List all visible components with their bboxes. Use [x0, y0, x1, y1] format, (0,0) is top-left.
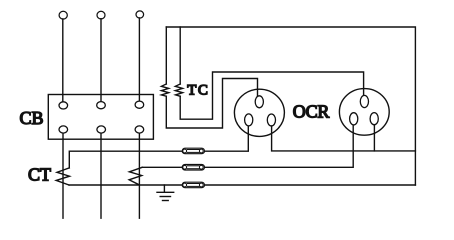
- wire phase A input: [62, 19, 64, 102]
- svg-text:CT: CT: [28, 165, 51, 185]
- terminal C: [136, 11, 144, 18]
- trip coil TC1: [161, 84, 168, 96]
- ground: [157, 185, 174, 201]
- wire control bus: top rail and right rail: [166, 27, 415, 185]
- CB contact C2: [135, 126, 144, 133]
- wire TC1 top lead: [165, 27, 167, 84]
- OCR2 coil pin left: [350, 113, 358, 125]
- CB contact A1: [59, 102, 68, 109]
- wire CT common return line 3: [69, 184, 415, 186]
- terminal B: [97, 11, 105, 19]
- wire TC2 to OCR2 trip pin: [180, 72, 363, 119]
- wire phase A output: [62, 133, 64, 218]
- OCR1 trip contact pin: [255, 96, 263, 108]
- wire phase B output: [100, 133, 102, 218]
- wire TC1 to OCR1 trip pin: [166, 79, 257, 129]
- wire phase C output: [138, 133, 140, 218]
- circuit breaker CB box: [48, 95, 153, 140]
- svg-text:OCR: OCR: [293, 102, 330, 122]
- wire CT2 secondary line 2 to OCR2 left pin: [142, 125, 353, 167]
- relay OCR1 case: [234, 89, 284, 136]
- OCR2 trip contact pin: [360, 95, 368, 107]
- CB contact C1: [135, 101, 144, 108]
- OCR2 coil pin right: [370, 113, 378, 125]
- wire OCR2 right pin junction: [373, 125, 375, 151]
- current transformer CT1: [56, 168, 69, 185]
- wire phase C input: [138, 18, 140, 101]
- OCR1 coil pin right: [267, 114, 275, 126]
- test terminal TT3: [182, 182, 204, 188]
- CB contact B2: [97, 126, 106, 133]
- svg-text:TC: TC: [187, 83, 209, 99]
- trip coil TC2: [175, 84, 182, 96]
- svg-text:CB: CB: [20, 108, 44, 128]
- relay OCR2 case: [339, 89, 389, 136]
- terminal A: [59, 11, 67, 19]
- wire TC2 top lead: [179, 27, 181, 84]
- wire OCR1 right pin to right rail: [272, 126, 416, 151]
- wire phase B input: [100, 19, 102, 102]
- test terminal TT2: [182, 165, 204, 171]
- OCR1 coil pin left: [245, 114, 253, 126]
- CB contact A2: [59, 126, 68, 133]
- CB contact B1: [97, 102, 106, 109]
- test terminal TT1: [182, 148, 204, 154]
- current transformer CT2: [129, 167, 142, 185]
- wire CT1 secondary tap and line 1 to OCR1 left pin: [69, 126, 248, 168]
